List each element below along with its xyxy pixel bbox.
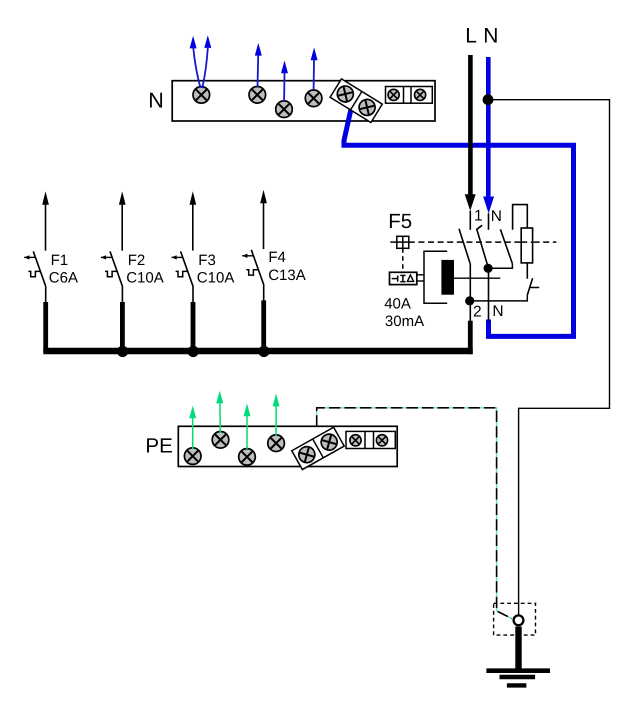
- ground bar 3: [507, 683, 527, 687]
- svg-text:F4: F4: [268, 249, 286, 266]
- differential relay box: [390, 272, 425, 284]
- wire PE dashed run to electrode (black dashes): [317, 408, 512, 619]
- test button tick: [530, 287, 539, 289]
- blue outgoing arrow on screw N3: [283, 73, 285, 102]
- blue outgoing arrow pair on screw N1: [193, 48, 208, 88]
- green arrow PE3: [246, 415, 248, 449]
- svg-text:2: 2: [473, 304, 482, 321]
- wire test contact to N node: [488, 264, 512, 269]
- svg-text:F5: F5: [388, 210, 412, 233]
- wire N incoming blue with arrow: [486, 57, 491, 200]
- wire blue drop from N terminal to RCD loop: [344, 104, 574, 337]
- breaker F1 symbol: [24, 191, 49, 352]
- wire bottom distribution bus (thick): [43, 348, 472, 355]
- svg-text:C10A: C10A: [126, 270, 164, 287]
- svg-text:F1: F1: [51, 252, 69, 269]
- breaker F2 symbol: [101, 191, 126, 352]
- blue outgoing arrow on screw N2: [257, 56, 260, 88]
- screw terminal N3: [276, 101, 293, 118]
- node junction dot F3/bus: [188, 346, 199, 357]
- svg-text:30mA: 30mA: [385, 313, 424, 330]
- svg-text:C10A: C10A: [197, 270, 235, 287]
- electrode connection circle: [514, 615, 524, 625]
- PE busbar box: [178, 426, 397, 466]
- svg-text:1: 1: [474, 208, 483, 225]
- screw terminal PE2: [212, 432, 229, 449]
- green arrow PE1: [192, 417, 194, 449]
- N busbar box: [172, 81, 435, 121]
- wire L incoming black with arrow: [468, 55, 473, 197]
- pole N switch blade with tick: [477, 225, 488, 265]
- tilted terminal block on N bar: [330, 79, 382, 123]
- screw terminal PE4: [268, 435, 285, 452]
- svg-text:N: N: [148, 88, 164, 112]
- dashed mechanism line: [409, 241, 557, 243]
- svg-text:N: N: [492, 303, 503, 320]
- svg-text:40A: 40A: [384, 296, 411, 313]
- resistor lower lead: [526, 263, 528, 279]
- wire CT sense line: [454, 277, 500, 279]
- node: junction dot on N feeding earth link: [483, 94, 494, 105]
- screw terminal N4: [305, 90, 322, 107]
- blue outgoing arrow on screw N4: [313, 60, 315, 91]
- dashed enclosure box: [494, 603, 536, 635]
- right terminal block on N bar: [386, 87, 433, 104]
- dashed mechanism line over resistor: [521, 241, 532, 243]
- mechanism box with cross: [390, 236, 409, 248]
- svg-text:PE: PE: [145, 435, 172, 458]
- pole N lower conductor: [488, 265, 490, 321]
- node dot on pole 1: [465, 296, 474, 305]
- pole 1 upper contact: [469, 211, 471, 230]
- svg-text:F2: F2: [128, 252, 146, 269]
- test resistor: [521, 228, 532, 263]
- tilted terminal block on PE bar: [292, 427, 344, 469]
- current transformer core (solid): [441, 260, 454, 295]
- right terminal block on PE bar: [346, 431, 395, 448]
- test contact upper + bridge: [513, 205, 528, 230]
- node junction dot F2/bus: [117, 346, 128, 357]
- node junction dot F4/bus: [258, 346, 269, 357]
- green arrow PE4: [275, 405, 277, 436]
- wire PE dashed run to electrode (green underlay): [317, 408, 512, 619]
- breaker F4 symbol: [242, 190, 267, 352]
- wire thin black link from N to earth electrode: [488, 100, 610, 615]
- svg-text:C6A: C6A: [49, 269, 78, 286]
- svg-text:N: N: [491, 208, 502, 225]
- screw terminal PE3: [239, 449, 256, 466]
- pole N upper contact: [488, 213, 490, 230]
- earth rod stem: [515, 627, 521, 671]
- pole 1 lower conductor: [469, 263, 471, 321]
- test button blade: [527, 278, 533, 296]
- wire test circuit to pole 1 node: [470, 296, 528, 301]
- svg-text:L: L: [465, 25, 477, 48]
- wire pole 1 output thick black: [468, 321, 473, 355]
- ground bar 1: [486, 668, 550, 673]
- svg-text:C13A: C13A: [268, 267, 306, 284]
- screw terminal PE1: [184, 448, 201, 465]
- screw terminal N1: [193, 87, 210, 104]
- current transformer bracket: [424, 251, 447, 303]
- dashed link to differential relay: [402, 248, 404, 272]
- svg-text:F3: F3: [198, 252, 216, 269]
- svg-text:N: N: [483, 25, 498, 48]
- pole 1 switch blade: [459, 229, 470, 264]
- test contact blade: [500, 229, 512, 263]
- node dot on pole N: [484, 264, 493, 273]
- screw terminal N2: [249, 87, 266, 104]
- ground bar 2: [500, 675, 536, 679]
- green arrow PE2: [219, 402, 221, 433]
- breaker F3 symbol: [172, 191, 197, 352]
